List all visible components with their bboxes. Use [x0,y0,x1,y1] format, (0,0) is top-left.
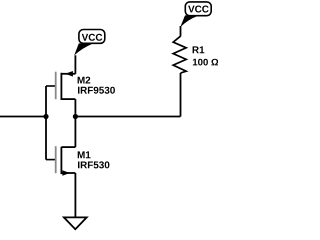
wire R1 to VCC flag [180,26,182,36]
label IRF9530 [78,87,115,94]
transistor M2 gate lead [46,85,56,87]
wire output net [75,116,180,118]
transistor M2 arrow [65,71,73,77]
transistor M2 source lead [61,73,75,75]
power flag VCC left text [82,34,103,41]
label M2 [78,77,91,84]
wire M2 drain to M1 drain [74,99,76,147]
transistor M1 arrow [62,170,69,176]
node gate junction [43,114,48,119]
wire input net [0,116,46,118]
label IRF530 [78,161,109,168]
power flag VCC left body [79,30,105,44]
ground [64,217,87,229]
label M1 [78,151,91,158]
transistor M1 source lead [61,172,75,174]
wire M1 source to ground [74,173,76,218]
transistor M1 drain lead [61,146,75,148]
transistor M1 channel bar [60,147,62,174]
power flag VCC right pointer [180,15,198,27]
node drain junction [73,114,78,119]
label R1 value 100 ohm [193,59,218,66]
transistor M2 channel bar [60,73,62,100]
wire M2 source to VCC [74,55,76,74]
power flag VCC right text [188,5,209,12]
transistor M1 gate lead [46,159,56,161]
wire gate bus [45,86,47,160]
label R1 [193,46,205,53]
transistor M2 drain lead [61,98,75,100]
transistor M2 gate bar [55,72,57,100]
transistor M1 gate bar [55,146,57,173]
power flag VCC left pointer [74,43,92,55]
wire R1 to output [180,73,182,117]
power flag VCC right body [185,2,211,16]
resistor R1 [173,36,186,73]
